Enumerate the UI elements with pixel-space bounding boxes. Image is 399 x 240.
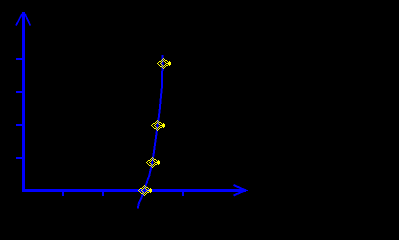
y-axis shaft bbox=[22, 12, 25, 191]
x-axis tick 4 bbox=[182, 191, 184, 196]
marker 2 (data point) bbox=[151, 120, 165, 131]
x-axis tick 2 bbox=[102, 191, 104, 196]
x-axis tick 1 bbox=[62, 191, 64, 196]
x-axis arrowhead bbox=[234, 185, 246, 196]
x-axis shaft bbox=[22, 189, 246, 192]
y-axis tick 2 bbox=[16, 91, 24, 93]
marker 3 (data point) bbox=[146, 157, 160, 168]
marker 4 (data point) bbox=[138, 185, 152, 196]
y-axis tick 3 bbox=[16, 124, 24, 126]
y-axis tick 1 bbox=[16, 58, 24, 60]
y-axis tick 4 bbox=[16, 157, 24, 159]
curve bbox=[138, 55, 163, 209]
y-axis arrowhead bbox=[16, 14, 22, 26]
x-axis tick 3 bbox=[142, 191, 144, 196]
marker 1 (data point) bbox=[157, 58, 171, 69]
